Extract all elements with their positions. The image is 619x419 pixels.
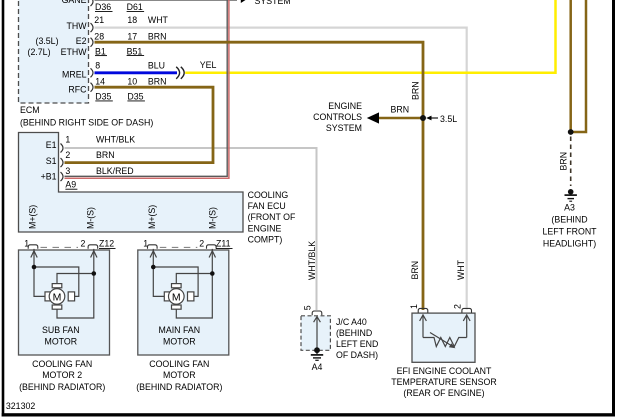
svg-text:WHT/BLK: WHT/BLK [96,135,135,145]
svg-text:S1: S1 [46,156,57,166]
junction dot [151,265,156,270]
junction dot [568,129,574,135]
page border bottom [2,413,615,416]
svg-text:10: 10 [127,76,137,86]
motor circle [169,289,185,305]
svg-text:M+(S): M+(S) [28,205,38,229]
motor brush right [188,292,194,301]
svg-text:YEL: YEL [200,60,217,70]
node junction 3.5L [420,115,426,121]
inline connector arcs [176,67,179,79]
page border right [612,0,615,417]
svg-text:17: 17 [127,31,137,41]
svg-text:BRN: BRN [558,152,568,171]
svg-text:ETHW: ETHW [61,47,88,57]
wire WHT from ECM THW to coolant sensor pin 2 [95,28,467,310]
svg-text:A4: A4 [312,362,323,372]
wire BRN vertical right 1 [569,0,572,132]
svg-text:A3: A3 [564,203,575,213]
wire pin1 down [153,249,164,297]
wire YEL to top of page [185,0,555,73]
svg-text:ENGINE: ENGINE [328,101,362,111]
sensor internal wires with arrows [420,315,471,347]
svg-text:WHT: WHT [456,259,466,280]
svg-text:3.5L: 3.5L [440,114,457,124]
motor brush bottom [52,305,62,309]
motor brush top [172,284,182,288]
svg-text:18: 18 [127,15,137,25]
svg-text:HEADLIGHT): HEADLIGHT) [543,239,596,249]
arrow into motor box pin1 [31,251,37,258]
svg-text:EFI ENGINE COOLANT: EFI ENGINE COOLANT [397,366,492,376]
wire BRN from ECM E2 down to coolant sensor pin 1 [95,42,424,310]
svg-text:(BEHIND: (BEHIND [336,328,372,338]
svg-text:BRN: BRN [391,105,410,115]
wire WHT/BLK from fan ECU E1 to J/C A40 [65,148,317,310]
svg-text:E1: E1 [46,140,57,150]
wire from junction to right brush [34,267,79,296]
svg-text:M-(S): M-(S) [208,207,218,229]
pin arc MREL [91,68,94,77]
svg-text:Z12: Z12 [99,238,114,248]
pin arc THW [91,23,94,32]
svg-text:LEFT END: LEFT END [336,339,378,349]
svg-text:B51: B51 [127,46,143,56]
wire BLK/RED from fan ECU +B1 to top of page [65,0,228,176]
svg-text:BRN: BRN [148,76,167,86]
wire from junction to right brush [153,267,198,296]
svg-text:BRN: BRN [96,150,115,160]
ground A3 [568,189,574,195]
svg-text:SYSTEM: SYSTEM [255,0,291,6]
ECM pin arc (top, cut) [91,0,94,6]
ECM connector box (dashed, behind right side of dash) [19,0,89,103]
svg-text:E2: E2 [76,36,87,46]
svg-text:CONTROLS: CONTROLS [313,112,362,122]
svg-text:BLK/RED: BLK/RED [96,166,134,176]
svg-text:MAIN FAN: MAIN FAN [159,325,201,335]
arrow to other system (cut) [241,0,247,3]
svg-text:COOLING: COOLING [248,190,289,200]
pin 1 arc [418,308,428,312]
connector Z12 dashed link [41,246,79,248]
thermistor arrow [430,333,451,346]
svg-text:(BEHIND RADIATOR): (BEHIND RADIATOR) [136,382,222,392]
svg-text:1: 1 [65,135,70,145]
pin 5 arc [312,311,322,315]
junction dot [32,265,37,270]
svg-text:28: 28 [94,31,104,41]
motor brush right [68,292,74,301]
EFI engine coolant temperature sensor box [412,313,475,362]
svg-text:BLU: BLU [148,61,165,71]
svg-text:5: 5 [302,305,312,310]
svg-text:2: 2 [199,238,204,248]
connector Z11 dashed link [160,246,198,248]
svg-text:SYSTEM: SYSTEM [326,123,362,133]
svg-text:2: 2 [65,150,70,160]
junction dot [314,347,320,353]
svg-text:SUB FAN: SUB FAN [42,325,80,335]
svg-text:D35: D35 [95,91,111,101]
svg-text:LEFT FRONT: LEFT FRONT [542,227,597,237]
svg-text:MOTOR: MOTOR [163,370,196,380]
svg-text:M-(S): M-(S) [86,207,96,229]
svg-text:(2.7L): (2.7L) [28,47,51,57]
arrow into motor box pin2 [209,251,215,258]
svg-text:MOTOR: MOTOR [163,337,196,347]
svg-text:MOTOR: MOTOR [45,337,78,347]
SUB FAN MOTOR box [19,250,110,355]
dashed wire to ground A3 [570,137,572,187]
wire BRN branch to engine controls [379,117,423,120]
junction connector J/C A40 box [301,316,330,351]
wire from junction to top brush [176,274,212,284]
svg-text:J/C A40: J/C A40 [336,317,367,327]
motor brush top [52,284,62,288]
svg-text:(3.5L): (3.5L) [36,36,59,46]
svg-text:ENGINE: ENGINE [248,223,282,233]
svg-text:B1: B1 [95,46,106,56]
svg-text:(REAR OF ENGINE): (REAR OF ENGINE) [403,388,484,398]
junction dot [92,271,97,276]
svg-text:(BEHIND RADIATOR): (BEHIND RADIATOR) [19,382,105,392]
junction dot [210,271,215,276]
wire pin2 down [176,249,212,318]
svg-text:M: M [172,291,181,303]
svg-text:2: 2 [81,238,86,248]
svg-text:M+(S): M+(S) [147,205,157,229]
svg-text:3: 3 [65,166,70,176]
svg-text:OF DASH): OF DASH) [336,350,378,360]
svg-text:COOLING FAN: COOLING FAN [149,359,209,369]
svg-text:Z11: Z11 [216,238,231,248]
main fan motor M2 [150,249,215,318]
svg-text:321302: 321302 [6,401,35,411]
svg-text:FAN ECU: FAN ECU [248,201,286,211]
svg-text:MOTOR 2: MOTOR 2 [42,370,82,380]
page border left [2,0,5,417]
svg-text:GANE: GANE [62,0,87,5]
COOLING FAN ECU box [19,133,244,233]
svg-text:D36: D36 [95,2,111,12]
sub fan motor M1 [31,249,97,318]
svg-text:THW: THW [66,21,87,31]
motor circle [49,289,65,305]
svg-text:A9: A9 [65,180,76,190]
svg-text:(FRONT OF: (FRONT OF [248,212,296,222]
wire (top row, cut) [95,0,238,1]
internal wire with arrow [316,317,318,350]
svg-text:BRN: BRN [148,31,167,41]
svg-text:BRN: BRN [410,81,420,100]
svg-text:+B1: +B1 [41,171,57,181]
arrow into motor box pin1 [150,251,156,258]
ground A4 [316,350,318,354]
MAIN FAN MOTOR box [138,250,229,355]
pin arc RFC [91,83,94,92]
wire BRN from ECM RFC to fan ECU S1 [65,87,214,162]
3.5L pointer arrow [429,117,438,119]
pin arc E2 [91,38,94,47]
svg-text:21: 21 [94,15,104,25]
wire BRN vertical right 2 [571,0,586,132]
svg-text:COOLING FAN: COOLING FAN [32,359,92,369]
pin 2 arc [462,308,472,312]
svg-text:WHT/BLK: WHT/BLK [307,241,317,280]
svg-text:2: 2 [453,304,463,309]
arrow to engine controls system [367,112,379,123]
arrow into motor box pin2 [91,251,97,258]
svg-text:MREL: MREL [62,70,87,80]
svg-text:(BEHIND RIGHT SIDE OF DASH): (BEHIND RIGHT SIDE OF DASH) [20,117,153,127]
svg-text:1: 1 [409,304,419,309]
motor brush left [164,292,170,301]
wire pin2 down [57,249,94,318]
wire BLU from MREL [95,71,178,74]
svg-text:8: 8 [95,61,100,71]
svg-text:BRN: BRN [410,261,420,280]
wire pin1 down [34,249,45,297]
wire from junction to top brush [57,274,94,284]
svg-text:WHT: WHT [148,15,169,25]
thermistor resistor element [423,338,467,347]
svg-text:COMPT): COMPT) [248,235,283,245]
wire BLK/RED red stripe [65,0,229,178]
motor brush left [45,292,51,301]
svg-text:14: 14 [95,76,105,86]
svg-text:TEMPERATURE SENSOR: TEMPERATURE SENSOR [391,377,496,387]
svg-text:D61: D61 [127,2,143,12]
svg-text:M: M [53,291,62,303]
svg-text:(BEHIND: (BEHIND [551,215,587,225]
svg-text:ECM: ECM [20,105,40,115]
motor brush bottom [172,305,182,309]
svg-text:D35: D35 [127,91,143,101]
svg-text:RFC: RFC [68,84,87,94]
